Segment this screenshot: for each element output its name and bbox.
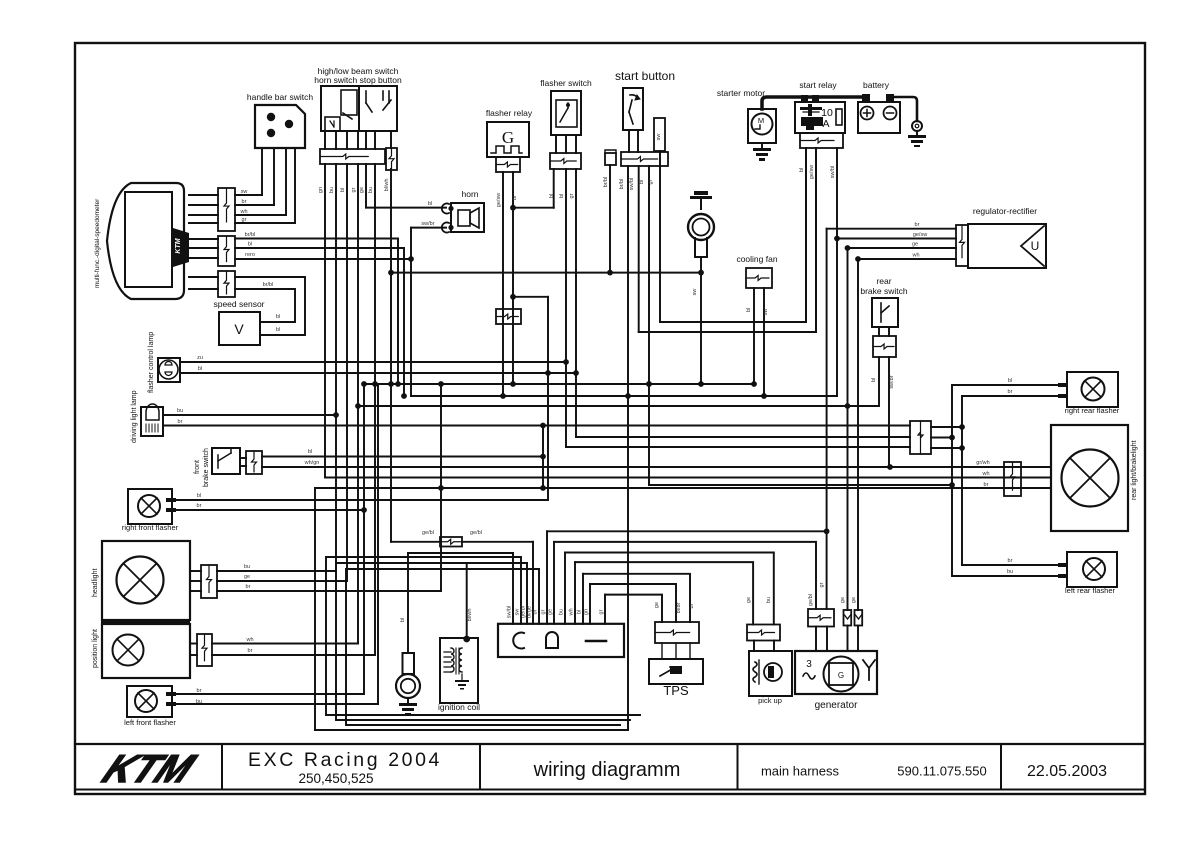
svg-text:br: br xyxy=(689,603,695,608)
svg-text:wh: wh xyxy=(981,471,989,477)
svg-text:bl: bl xyxy=(308,449,312,455)
svg-text:V: V xyxy=(234,321,244,337)
svg-text:bu: bu xyxy=(244,564,250,570)
svg-text:br: br xyxy=(248,648,253,654)
svg-text:sw/bl: sw/bl xyxy=(830,166,836,179)
svg-text:driving light lamp: driving light lamp xyxy=(131,390,138,443)
svg-text:wiring diagramm: wiring diagramm xyxy=(533,759,681,781)
svg-text:brake switch: brake switch xyxy=(860,286,908,296)
svg-text:bu: bu xyxy=(559,609,565,615)
svg-text:sw/br: sw/br xyxy=(889,375,895,388)
svg-text:sw/bl: sw/bl xyxy=(507,606,513,619)
svg-text:gr: gr xyxy=(242,217,247,223)
svg-text:3: 3 xyxy=(806,659,812,670)
svg-text:br: br xyxy=(197,688,202,694)
svg-text:A: A xyxy=(822,118,829,130)
svg-text:rero: rero xyxy=(245,252,255,258)
svg-text:gr: gr xyxy=(599,609,605,614)
svg-text:ge: ge xyxy=(746,597,752,603)
svg-text:sw: sw xyxy=(656,134,662,141)
svg-text:G: G xyxy=(502,128,514,147)
svg-text:generator: generator xyxy=(815,700,858,711)
svg-text:KTM: KTM xyxy=(175,238,182,253)
svg-text:position light: position light xyxy=(92,629,99,668)
svg-text:bu: bu xyxy=(177,408,183,414)
svg-text:gr: gr xyxy=(569,193,575,198)
svg-text:590.11.075.550: 590.11.075.550 xyxy=(897,764,986,779)
svg-text:ge/sw: ge/sw xyxy=(913,232,927,238)
svg-text:pick up: pick up xyxy=(758,696,782,705)
svg-text:bl: bl xyxy=(549,194,555,198)
svg-text:ge/sw: ge/sw xyxy=(496,193,502,207)
svg-text:wh: wh xyxy=(911,253,919,259)
svg-text:ge/bl: ge/bl xyxy=(808,594,814,606)
svg-text:bu: bu xyxy=(329,187,335,193)
svg-text:bl: bl xyxy=(512,196,518,200)
svg-text:gr: gr xyxy=(819,582,825,587)
svg-text:ge: ge xyxy=(851,597,857,603)
svg-text:bu: bu xyxy=(1007,569,1013,575)
svg-text:br/bl: br/bl xyxy=(619,179,625,190)
svg-text:sw/bl: sw/bl xyxy=(629,178,635,191)
svg-text:br: br xyxy=(984,482,989,488)
svg-text:multi-func.-digital-speedomete: multi-func.-digital-speedometer xyxy=(94,198,101,288)
svg-text:gr: gr xyxy=(541,609,547,614)
svg-text:ge/bl: ge/bl xyxy=(470,530,482,536)
svg-text:TPS: TPS xyxy=(663,683,689,698)
svg-text:gn: gn xyxy=(584,609,590,615)
svg-text:br: br xyxy=(242,199,247,205)
svg-text:ge/sw: ge/sw xyxy=(809,165,815,179)
svg-text:bl: bl xyxy=(428,201,432,207)
svg-text:br: br xyxy=(533,609,539,614)
svg-text:sw: sw xyxy=(241,189,248,195)
svg-text:ge/bl: ge/bl xyxy=(422,530,434,536)
svg-text:br: br xyxy=(197,503,202,509)
svg-text:bl: bl xyxy=(799,168,805,172)
svg-text:battery: battery xyxy=(863,80,890,90)
svg-text:br: br xyxy=(178,419,183,425)
svg-text:zu: zu xyxy=(197,355,203,361)
svg-text:G: G xyxy=(838,671,844,680)
svg-text:left front flasher: left front flasher xyxy=(124,718,176,727)
svg-text:flasher switch: flasher switch xyxy=(540,78,592,88)
svg-text:bl: bl xyxy=(198,366,202,372)
svg-text:bu: bu xyxy=(368,187,374,193)
svg-text:bu: bu xyxy=(196,699,202,705)
svg-text:22.05.2003: 22.05.2003 xyxy=(1027,763,1107,780)
svg-text:sw: sw xyxy=(763,309,769,316)
svg-text:ge: ge xyxy=(840,597,846,603)
svg-text:main harness: main harness xyxy=(761,764,840,779)
svg-text:cooling fan: cooling fan xyxy=(736,254,777,264)
svg-text:250,450,525: 250,450,525 xyxy=(298,771,373,786)
svg-text:headlight: headlight xyxy=(92,569,99,597)
svg-text:ge: ge xyxy=(244,574,250,580)
svg-text:M: M xyxy=(758,116,764,125)
svg-text:flasher control lamp: flasher control lamp xyxy=(148,332,155,393)
svg-text:br/bl: br/bl xyxy=(245,232,256,238)
svg-text:bl: bl xyxy=(871,378,877,382)
svg-text:flasher relay: flasher relay xyxy=(486,108,533,118)
svg-text:wh: wh xyxy=(569,608,575,616)
svg-text:bl: bl xyxy=(248,242,252,248)
svg-text:bl/wh: bl/wh xyxy=(384,179,390,192)
svg-text:rear light/brakelight: rear light/brakelight xyxy=(1131,440,1138,500)
svg-text:bl: bl xyxy=(276,327,280,333)
svg-text:br/bl: br/bl xyxy=(263,282,274,288)
svg-text:gr: gr xyxy=(648,179,654,184)
svg-text:rear: rear xyxy=(876,276,891,286)
svg-text:front: front xyxy=(194,460,201,474)
svg-text:handle bar switch: handle bar switch xyxy=(247,92,313,102)
svg-text:U: U xyxy=(1031,239,1040,253)
svg-text:wh: wh xyxy=(239,209,247,215)
svg-text:bu: bu xyxy=(766,597,772,603)
svg-text:br/bl: br/bl xyxy=(603,177,609,188)
svg-text:ge: ge xyxy=(912,242,918,248)
svg-text:bl: bl xyxy=(197,493,201,499)
svg-text:bl: bl xyxy=(276,314,280,320)
svg-text:bl: bl xyxy=(400,618,406,622)
svg-text:speed sensor: speed sensor xyxy=(213,299,264,309)
svg-text:horn switch stop button: horn switch stop button xyxy=(314,75,402,85)
svg-text:starter motor: starter motor xyxy=(717,88,765,98)
svg-text:start relay: start relay xyxy=(799,80,837,90)
svg-text:bl: bl xyxy=(639,180,645,184)
svg-text:start button: start button xyxy=(615,69,675,83)
svg-text:ge: ge xyxy=(359,187,365,193)
svg-text:br: br xyxy=(246,584,251,590)
svg-text:bl: bl xyxy=(1008,378,1012,384)
svg-text:bl/wh: bl/wh xyxy=(467,609,473,622)
svg-text:br: br xyxy=(915,222,920,228)
svg-text:regulator-rectifier: regulator-rectifier xyxy=(973,206,1037,216)
svg-text:EXC Racing 2004: EXC Racing 2004 xyxy=(248,749,442,771)
svg-text:wh: wh xyxy=(245,637,253,643)
svg-text:bl: bl xyxy=(577,610,583,614)
svg-text:sw/br: sw/br xyxy=(421,221,434,227)
svg-text:bl/br: bl/br xyxy=(676,602,682,613)
svg-text:br: br xyxy=(1008,558,1013,564)
svg-text:gr: gr xyxy=(351,187,357,192)
svg-text:sw: sw xyxy=(692,289,698,296)
svg-text:bl: bl xyxy=(746,308,752,312)
svg-text:horn: horn xyxy=(461,189,478,199)
svg-text:gn: gn xyxy=(318,187,324,193)
svg-text:ge: ge xyxy=(654,602,660,608)
svg-text:gr/wh: gr/wh xyxy=(976,460,989,466)
svg-text:br: br xyxy=(1008,389,1013,395)
svg-text:bl: bl xyxy=(340,188,346,192)
svg-text:brake switch: brake switch xyxy=(203,448,210,487)
svg-text:ge: ge xyxy=(548,609,554,615)
svg-text:bl: bl xyxy=(559,194,565,198)
svg-text:wh/gn: wh/gn xyxy=(304,460,320,466)
